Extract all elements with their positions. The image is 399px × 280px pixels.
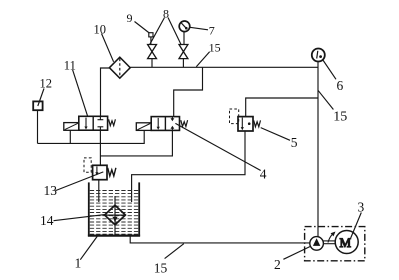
- svg-text:3: 3: [358, 200, 365, 215]
- wire: shut-off valve 8a lower stub: [151, 59, 153, 68]
- svg-text:10: 10: [94, 23, 107, 37]
- wire: valve 11 solenoid stub down to bus L1: [69, 130, 71, 143]
- power unit enclosure (dash-dot box): [305, 227, 365, 261]
- solenoid valve V11: [64, 116, 116, 130]
- svg-text:7: 7: [209, 24, 215, 38]
- solenoid valve V4: [136, 117, 187, 131]
- svg-text:6: 6: [337, 78, 344, 93]
- svg-text:13: 13: [44, 183, 58, 198]
- svg-text:15: 15: [209, 40, 221, 54]
- pointer line for label 6: [323, 60, 336, 79]
- svg-text:12: 12: [40, 76, 53, 90]
- wire: branch from riser left to relief valve 5 top port: [246, 98, 318, 117]
- wire: filter inlet from valve 11 top port, up and right to filter 10 left corner: [101, 68, 110, 116]
- svg-text:2: 2: [274, 257, 281, 272]
- pump P2 (circle with solid triangle): [310, 237, 324, 251]
- wire: pressure riser from gauge 6 down to pump outlet: [317, 62, 319, 237]
- wire: relief valve 5 return, down then left then into tank: [132, 131, 245, 202]
- svg-text:11: 11: [64, 58, 76, 72]
- pointer line for label 14: [54, 215, 105, 221]
- svg-text:M: M: [340, 235, 352, 250]
- pointer line for label 10: [102, 34, 114, 62]
- shut-off valve 8a (bowtie): [148, 45, 157, 59]
- rotation arrow above shaft: [328, 232, 336, 243]
- svg-text:5: 5: [291, 135, 298, 150]
- pointer line for label 4: [175, 123, 260, 170]
- sequence valve V13: [84, 158, 116, 180]
- pointer line for label 9: [135, 22, 150, 34]
- wire: main line A from filter 10 right corner to pressure riser: [130, 66, 318, 68]
- pressure gauge P7 (circle with needle): [179, 21, 190, 32]
- shut-off valve 8b (bowtie): [179, 45, 188, 59]
- svg-text:14: 14: [40, 213, 54, 228]
- wire: valve 11 right port down to valve 13 top: [99, 130, 101, 165]
- wire: bus L2 from valve13 top junction right then up to valve 4 right port: [100, 130, 172, 156]
- pointer line for label 12: [38, 89, 44, 107]
- svg-text:4: 4: [260, 167, 267, 182]
- wire: shut-off valve 8b lower stub: [182, 59, 184, 68]
- pointer lines for label 8: [150, 18, 165, 45]
- pointer line for label 11: [73, 70, 88, 117]
- pointer line for label 15 top: [196, 52, 209, 67]
- plug 9 (small square): [149, 33, 153, 37]
- wire: stub from valve 8a up to plug 9: [150, 37, 152, 45]
- svg-text:9: 9: [127, 11, 133, 25]
- pointer line for label 15 right: [318, 90, 333, 109]
- wire: stub from valve 8b up to gauge 7: [183, 32, 185, 45]
- wire: suction line from tank bottom to pump inlet: [130, 236, 310, 243]
- pressure gauge P6 (circle at top right): [312, 49, 325, 62]
- svg-text:8: 8: [163, 7, 169, 21]
- suction filter F14 (diamond in tank): [105, 205, 126, 225]
- filter F10 (diamond with dashed element): [109, 57, 130, 78]
- pointer line for label 2: [283, 246, 310, 259]
- tank liquid hatching: [90, 191, 139, 235]
- pointer line for label 7: [190, 27, 208, 30]
- svg-text:15: 15: [333, 110, 347, 125]
- pointer line for label 3: [351, 213, 362, 239]
- wire: line from pressure switch 12 down to solenoid bus L1: [37, 110, 39, 143]
- pointer line for label 15 bottom: [165, 244, 184, 259]
- wire: suction pipe through filter 14: [114, 196, 116, 235]
- relief valve V5: [230, 109, 261, 131]
- pointer line for label 1: [80, 236, 97, 259]
- pressure switch S12 (small thick square): [33, 101, 42, 110]
- pointer line for label 13: [56, 172, 104, 191]
- wire: bus L1 from x=37.5 right, up at right end to valve 4 solenoid: [38, 130, 145, 143]
- tank T1 (walls and bottom): [88, 182, 140, 236]
- electric motor M3 (circle with M): [335, 231, 358, 254]
- svg-text:1: 1: [75, 256, 82, 271]
- svg-text:15: 15: [154, 260, 168, 275]
- wire: valve 13 bottom port dipping into tank: [98, 180, 100, 202]
- pointer line for label 5: [261, 128, 290, 141]
- wire: drop from main line A down then left to valve 4 top port: [174, 67, 203, 116]
- shaft between pump 2 and motor 3: [324, 240, 336, 242]
